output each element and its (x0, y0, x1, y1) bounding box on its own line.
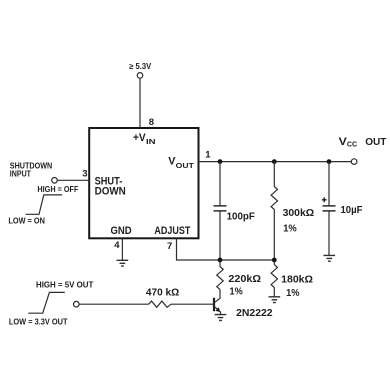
Q1 emitter (214, 306, 220, 314)
node adjust-R180k (272, 258, 277, 263)
svg-text:HIGH = 5V OUT: HIGH = 5V OUT (36, 281, 93, 290)
svg-text:1: 1 (205, 149, 211, 160)
polarity plus sign (322, 197, 327, 202)
svg-text:8: 8 (149, 117, 154, 128)
wire to capacitor C2 10uF (328, 162, 330, 206)
capacitor C2 10uF (323, 206, 336, 211)
svg-text:ADJUST: ADJUST (154, 225, 190, 237)
pin 4 wire (121, 238, 123, 260)
svg-text:GND: GND (111, 225, 132, 237)
resistor R 470k (149, 301, 171, 307)
wire ADJUST to divider rail (177, 238, 275, 260)
pin 3 wire (57, 179, 89, 181)
node rail-C10u (327, 159, 332, 164)
svg-text:4: 4 (114, 240, 120, 251)
svg-text:220kΩ: 220kΩ (228, 274, 261, 285)
wire R470k to base (171, 303, 213, 305)
waveform symbol shutdown (26, 195, 63, 214)
svg-text:100pF: 100pF (227, 212, 255, 223)
svg-text:1%: 1% (286, 288, 300, 299)
wire to resistor R 470k (79, 303, 149, 305)
svg-text:300kΩ: 300kΩ (283, 208, 315, 219)
svg-text:LOW = 3.3V OUT: LOW = 3.3V OUT (9, 317, 68, 326)
wire R300k to adjust rail (273, 210, 275, 261)
shutdown input terminal circle (52, 178, 58, 184)
wire C2 to ground (328, 211, 330, 255)
op-amp U1 regulator body (89, 128, 198, 238)
wire VOUT rail (199, 161, 352, 163)
node adjust-R220k (218, 258, 223, 263)
svg-text:IN: IN (146, 137, 156, 146)
wire to resistor R 300k (273, 162, 275, 187)
ground C2 (324, 255, 336, 261)
capacitor C1 100pF (214, 206, 227, 211)
svg-text:1%: 1% (283, 224, 297, 235)
pin 8 wire (139, 78, 141, 128)
VCC OUT terminal circle (351, 159, 357, 165)
svg-text:OUT: OUT (176, 161, 195, 170)
svg-text:CC: CC (347, 139, 358, 148)
waveform symbol output select (28, 292, 65, 313)
Q1 collector (214, 290, 220, 303)
svg-text:≥ 5.3V: ≥ 5.3V (129, 62, 152, 71)
wire to resistor R 220k (219, 260, 221, 267)
node rail-C1 (218, 159, 223, 164)
resistor R 220k (217, 267, 223, 290)
svg-text:LOW = ON: LOW = ON (8, 217, 45, 226)
wire to resistor R 180k (273, 260, 275, 265)
svg-text:10µF: 10µF (341, 205, 363, 216)
svg-text:3: 3 (82, 169, 87, 180)
node rail-R300k (272, 159, 277, 164)
Q1 emitter arrow (215, 307, 220, 312)
svg-text:180kΩ: 180kΩ (281, 275, 313, 286)
ground GND pin (117, 260, 129, 266)
svg-text:HIGH = OFF: HIGH = OFF (37, 185, 78, 194)
resistor R 300k (271, 187, 277, 210)
resistor R 180k (271, 265, 277, 288)
select input terminal circle (74, 301, 80, 307)
svg-text:OUT: OUT (365, 136, 387, 148)
wire R180k to ground (273, 288, 275, 297)
svg-text:7: 7 (167, 241, 172, 252)
svg-text:470 kΩ: 470 kΩ (146, 287, 179, 298)
transistor Q1 2N2222 (213, 298, 215, 311)
svg-text:1%: 1% (230, 287, 243, 298)
wire to capacitor C1 (219, 162, 221, 206)
ground Q1 emitter (215, 315, 227, 321)
supply terminal circle (137, 73, 143, 79)
svg-text:DOWN: DOWN (95, 186, 126, 198)
svg-text:+V: +V (133, 132, 146, 144)
svg-text:INPUT: INPUT (10, 169, 31, 178)
ground R180k (269, 297, 281, 303)
svg-text:2N2222: 2N2222 (236, 308, 273, 319)
wire C1 to adjust rail (219, 211, 221, 260)
